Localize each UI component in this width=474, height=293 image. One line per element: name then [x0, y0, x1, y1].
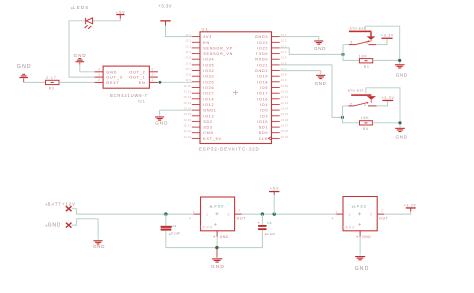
IC1 pin 3 OUT_3 stub [95, 76, 104, 78]
IC2 value LF50 [209, 206, 211, 208]
svg-text:J2.17: J2.17 [183, 123, 191, 127]
U1 CLK clock mark [268, 137, 271, 141]
U1 pin J2.11 IO27 [192, 92, 200, 94]
wire IC2 OUT rail [242, 213, 337, 215]
svg-text:IO2: IO2 [260, 114, 268, 118]
svg-text:J3.14: J3.14 [280, 107, 288, 111]
IC3 pin 3 GND stub [359, 231, 361, 237]
IC2 pin 3 GND stub [216, 231, 218, 237]
svg-text:LF33: LF33 [354, 204, 367, 209]
svg-text:GND: GND [211, 264, 225, 270]
U1 pin J3.8 IO19 [272, 75, 280, 77]
svg-text:C2: C2 [172, 224, 176, 228]
U1 pin J3.12 IO16 [272, 98, 280, 100]
switch S1 actuator [349, 31, 372, 33]
IC1 pin 1 EN stub [149, 81, 158, 83]
LED LED5 [85, 18, 93, 29]
svg-text:6: 6 [151, 68, 153, 72]
svg-text:2.17: 2.17 [46, 76, 57, 80]
svg-text:2: 2 [370, 213, 372, 217]
svg-text:J2.11: J2.11 [183, 90, 191, 94]
wire C2 drop [165, 214, 167, 226]
regulator IC3 LF33 body [343, 197, 377, 231]
svg-text:3: 3 [364, 102, 366, 106]
svg-text:J2.16: J2.16 [183, 118, 191, 122]
svg-text:SD2: SD2 [203, 120, 213, 124]
svg-text:OUT_1: OUT_1 [129, 76, 145, 80]
svg-text:J3.10: J3.10 [280, 84, 288, 88]
svg-text:J3.5: J3.5 [280, 56, 286, 60]
svg-text:IO0: IO0 [260, 109, 268, 113]
switch S2 actuator [351, 94, 371, 96]
U1 pin J3.4 TXD0 [272, 53, 280, 55]
junction button2 left [341, 116, 344, 119]
svg-text:IO17: IO17 [257, 92, 268, 96]
U1 pin J2.10 IO26 [192, 87, 200, 89]
U1 pin J3.15 IO2 [272, 115, 280, 117]
svg-text:OUT_2: OUT_2 [129, 70, 145, 74]
svg-text:IO22: IO22 [257, 46, 268, 50]
U1 pin J2.12 IO14 [192, 98, 200, 100]
resistor R1 value 18K [359, 59, 372, 63]
svg-text:IO15: IO15 [257, 120, 268, 124]
svg-text:SENSOR_VP: SENSOR_VP [203, 46, 233, 50]
svg-text:J2.2: J2.2 [185, 39, 191, 43]
svg-text:1: 1 [193, 210, 195, 214]
LED LED5 label [71, 7, 73, 9]
IC1 pin 2 OUT_1 stub [149, 76, 158, 78]
svg-text:3: 3 [98, 73, 100, 77]
svg-text:CMD: CMD [203, 131, 214, 135]
svg-text:GND: GND [355, 266, 370, 272]
svg-text:GND: GND [396, 134, 408, 139]
svg-text:EXT_5V: EXT_5V [203, 137, 222, 141]
svg-text:J3.8: J3.8 [280, 73, 286, 77]
pad X2 GND [66, 223, 72, 228]
wire ESP32 GND3 to ground [280, 37, 319, 40]
svg-text:J3.9: J3.9 [280, 78, 286, 82]
svg-text:J2.3: J2.3 [185, 44, 191, 48]
svg-text:OUT: OUT [237, 217, 246, 221]
svg-text:2: 2 [151, 73, 153, 77]
svg-text:IO34: IO34 [203, 58, 214, 62]
wire C3 bottom to gnd rail [261, 230, 263, 248]
U1 origin cross [233, 90, 238, 95]
U1 pin J2.7 IO32 [192, 70, 200, 72]
svg-text:1: 1 [206, 213, 208, 217]
svg-text:18K: 18K [361, 116, 370, 120]
svg-text:J3.19: J3.19 [280, 135, 288, 139]
op IC1 BCR421UW6-7 body [103, 66, 149, 88]
wire R6 to gnd rail [372, 122, 400, 124]
svg-text:J2.4: J2.4 [185, 50, 191, 54]
svg-text:IO32: IO32 [203, 69, 214, 73]
svg-text:J3.2: J3.2 [280, 39, 286, 43]
wire button2 top to gnd rail [366, 88, 400, 128]
svg-text:0.1uF: 0.1uF [171, 232, 180, 236]
svg-text:GND: GND [93, 244, 105, 249]
ground GND (under IC2) [216, 248, 218, 258]
svg-text:IC1: IC1 [138, 99, 146, 103]
wire ESP32 IO22 to button 1 net [280, 48, 343, 55]
ground GND (J3.1) [314, 40, 323, 41]
svg-text:J2.9: J2.9 [185, 78, 191, 82]
U1 pin J2.15 IO13 [192, 115, 200, 117]
svg-text:GND: GND [106, 70, 117, 74]
svg-text:LFXX: LFXX [343, 224, 355, 229]
U1 pin J3.13 IO4 [272, 104, 280, 106]
IC1 pin 6 OUT_2 stub [149, 71, 158, 73]
U1 pin J3.14 IO0 [272, 109, 280, 111]
svg-text:RXD0: RXD0 [255, 58, 268, 62]
U1 pin J2.17 SD3 [192, 126, 200, 128]
svg-text:GND: GND [362, 235, 371, 239]
svg-text:GND: GND [314, 46, 326, 51]
svg-text:+3,3V: +3,3V [404, 203, 417, 207]
svg-text:GND2: GND2 [255, 69, 268, 73]
switch S2 contacts and lever [348, 105, 353, 107]
svg-text:3: 3 [366, 40, 368, 44]
U1 pin J3.2 IO23 [272, 41, 280, 43]
wire GND pad to ground [72, 219, 98, 240]
junction C3 top [261, 212, 264, 215]
junction button2 right [398, 121, 401, 124]
IC3 value LF33 [352, 206, 354, 208]
U1 pin J2.9 IO25 [192, 81, 200, 83]
resistor R2 value 2.17 [46, 80, 60, 84]
svg-text:R2: R2 [49, 87, 55, 91]
wire GND to R2 [24, 81, 46, 83]
svg-text:2: 2 [381, 208, 383, 212]
U1 pin J3.9 IO18 [272, 81, 280, 83]
svg-text:J2.5: J2.5 [185, 56, 191, 60]
svg-text:IO16: IO16 [257, 97, 268, 101]
U1 pin J3.19 CLK [272, 137, 280, 139]
wire GND to IC1 GND pin [80, 65, 95, 72]
ground GND (button 2) [395, 128, 405, 129]
svg-text:J2.7: J2.7 [185, 67, 191, 71]
svg-text:IO13: IO13 [203, 114, 214, 118]
U1 pin J2.5 IO34 [192, 58, 200, 60]
svg-text:BATT+12V: BATT+12V [48, 201, 76, 206]
mcu U1 ESP32-DEVKITC-32D body [200, 32, 272, 144]
svg-text:1: 1 [151, 78, 153, 82]
svg-text:REXT: REXT [106, 81, 119, 85]
U1 pin J3.1 GND3 [272, 36, 280, 38]
supply +5V (top, LED anode) [116, 14, 124, 15]
wire IC3 OUT to +3,3V [384, 209, 411, 214]
svg-text:IO27: IO27 [203, 92, 214, 96]
svg-text:EN: EN [203, 41, 210, 45]
IC1 pin 5 REXT stub [95, 81, 104, 83]
wire +3,3V to ESP32 3V3 [166, 26, 192, 37]
wire IC1 EN to ESP32 IO25 [158, 81, 192, 83]
svg-text:J2.15: J2.15 [183, 112, 191, 116]
junction IC2 GND rail [215, 246, 218, 249]
svg-text:J2.19: J2.19 [183, 135, 191, 139]
wire LED cathode to IC1 OUT_3 [69, 21, 95, 77]
wire BATT+12V to IC2 IN [72, 209, 194, 214]
svg-text:3V3: 3V3 [203, 35, 212, 39]
svg-text:BTN-B3F: BTN-B3F [348, 89, 364, 93]
svg-text:5: 5 [98, 78, 100, 82]
wire button1 left vertical [343, 45, 359, 61]
svg-text:OUT_3: OUT_3 [106, 76, 122, 80]
svg-text:J3.11: J3.11 [280, 90, 288, 94]
junction button1 right [398, 59, 401, 62]
svg-text:+5V: +5V [270, 187, 280, 191]
svg-text:GND: GND [48, 223, 62, 229]
svg-text:SD1: SD1 [259, 126, 269, 130]
svg-text:IO25: IO25 [203, 80, 214, 84]
wire IC2 GND to rail [216, 237, 218, 248]
wire IC3 GND to ground [359, 237, 361, 256]
svg-text:J2.6: J2.6 [185, 61, 191, 65]
svg-text:J2.8: J2.8 [185, 73, 191, 77]
wire ESP32 GND2 to ground [280, 71, 321, 75]
svg-text:J2.13: J2.13 [183, 101, 191, 105]
U1 pin J2.2 EN [192, 41, 200, 43]
U1 pin J3.3 IO22 [272, 47, 280, 49]
svg-text:+3,3V: +3,3V [381, 33, 394, 37]
junction button1 left [341, 53, 344, 56]
svg-text:J3.13: J3.13 [280, 101, 288, 105]
svg-text:J3.4: J3.4 [280, 50, 286, 54]
switch S1 contacts and lever [349, 44, 355, 46]
U1 pin J2.16 SD2 [192, 120, 200, 122]
svg-text:ESP32-DEVKITC-32D: ESP32-DEVKITC-32D [199, 147, 260, 152]
svg-text:J3.16: J3.16 [280, 118, 288, 122]
ground GND (button 1) [395, 64, 405, 65]
svg-text:GND: GND [74, 53, 87, 58]
IC2 pin 2 OUT stub [235, 213, 242, 215]
IC1 pin 4 GND stub [95, 71, 104, 73]
ground GND (J3.7) [316, 75, 325, 76]
wire R2 to IC1 REXT [59, 81, 95, 83]
svg-text:+3,3V: +3,3V [382, 96, 395, 100]
svg-text:GND: GND [17, 64, 32, 70]
svg-text:J2.10: J2.10 [183, 84, 191, 88]
ground GND (left of ESP32) [155, 116, 164, 117]
capacitor C2 value 0.1uF [161, 226, 172, 228]
U1 pin J2.19 EXT_5V [192, 137, 200, 139]
regulator IC2 LF50 body [201, 197, 235, 231]
svg-text:IO23: IO23 [257, 41, 268, 45]
svg-text:IO12: IO12 [203, 103, 214, 107]
U1 pin J3.10 IO5 [272, 87, 280, 89]
pad GND label [45, 225, 47, 227]
U1 pin J3.6 IO21 [272, 64, 280, 66]
wire ESP32 IO21 to button 2 net [280, 65, 342, 118]
svg-text:CLK: CLK [259, 137, 269, 141]
svg-text:J2.18: J2.18 [183, 129, 191, 133]
wire +5V to LED [93, 19, 120, 21]
wire button2 left vertical [343, 106, 360, 123]
ground GND (power input) [94, 240, 103, 241]
U1 pin J2.14 GND1 [192, 109, 200, 111]
svg-text:2: 2 [238, 208, 240, 212]
svg-text:OUT: OUT [379, 217, 388, 221]
U1 pin J2.8 IO33 [192, 75, 200, 77]
svg-text:IO21: IO21 [257, 63, 268, 67]
svg-text:EN: EN [139, 81, 146, 85]
pad BATT+12V label [45, 204, 47, 206]
wire R1 to gnd rail [373, 59, 400, 61]
wire switch1 right pin to +3,3V [376, 39, 387, 45]
svg-text:SENSOR_VN: SENSOR_VN [203, 52, 233, 56]
svg-text:GND: GND [155, 121, 168, 126]
svg-text:+5V: +5V [116, 9, 126, 14]
pad X1 BATT+12V [66, 206, 72, 211]
wire ESP32 GND1 to ground [160, 110, 192, 116]
svg-text:TXD0: TXD0 [256, 52, 269, 56]
svg-text:1: 1 [335, 210, 337, 214]
svg-text:C3: C3 [267, 221, 271, 225]
wire +5V riser [273, 195, 275, 214]
svg-text:1: 1 [348, 213, 350, 217]
svg-text:IO18: IO18 [257, 80, 268, 84]
svg-text:LED5: LED5 [73, 5, 89, 10]
U1 pin J3.11 IO17 [272, 92, 280, 94]
wire C2 bottom to gnd rail [166, 231, 263, 248]
IC3 pin 1 IN stub [336, 213, 343, 215]
U1 pin J2.6 IO35 [192, 64, 200, 66]
svg-text:LF50: LF50 [211, 204, 224, 209]
svg-text:IO5: IO5 [260, 86, 268, 90]
U1 pin J2.4 SENSOR_VN [192, 53, 200, 55]
svg-text:+3,3V: +3,3V [158, 4, 172, 9]
wire button1 top to gnd rail [365, 26, 400, 64]
svg-text:U1: U1 [202, 26, 210, 31]
svg-text:IO14: IO14 [203, 97, 214, 101]
junction C2 top [164, 212, 167, 215]
svg-text:GND: GND [220, 235, 229, 239]
svg-text:IO19: IO19 [257, 75, 268, 79]
ground GND (under IC3) [355, 256, 365, 257]
svg-text:2: 2 [227, 213, 229, 217]
svg-text:+: + [258, 221, 260, 225]
svg-text:GND1: GND1 [203, 109, 216, 113]
svg-text:J3.18: J3.18 [280, 129, 288, 133]
svg-text:BCR421UW6-7: BCR421UW6-7 [110, 93, 148, 98]
wire switch2 left pin [343, 105, 349, 107]
IC3 pin 2 OUT stub [377, 213, 384, 215]
svg-text:R6: R6 [363, 127, 369, 131]
U1 pin J3.18 SD0 [272, 132, 280, 134]
svg-text:SD0: SD0 [259, 131, 269, 135]
svg-text:2: 2 [350, 40, 352, 44]
svg-text:J3.15: J3.15 [280, 112, 288, 116]
svg-text:J2.12: J2.12 [183, 95, 191, 99]
svg-text:BTN-B3F: BTN-B3F [350, 26, 366, 30]
svg-text:LFXX: LFXX [200, 224, 212, 229]
U1 pin J3.5 RXD0 [272, 58, 280, 60]
svg-text:2.2uF: 2.2uF [267, 232, 276, 236]
svg-text:4: 4 [98, 68, 100, 72]
U1 pin J2.18 CMD [192, 132, 200, 134]
junction +5V riser [273, 212, 276, 215]
svg-text:IO26: IO26 [203, 86, 214, 90]
svg-text:IO35: IO35 [203, 63, 214, 67]
svg-text:SD3: SD3 [203, 126, 213, 130]
svg-text:IO33: IO33 [203, 75, 214, 79]
svg-text:J3.17: J3.17 [280, 123, 288, 127]
junction EN net [159, 81, 162, 84]
IC2 pin 1 IN stub [194, 213, 201, 215]
svg-text:J2.1: J2.1 [185, 33, 191, 37]
wire C3 drop [261, 214, 263, 225]
U1 pin J2.13 IO12 [192, 104, 200, 106]
wire switch2 right pin to +3,3V [377, 101, 388, 106]
svg-text:GND: GND [315, 81, 327, 86]
U1 pin J3.17 SD1 [272, 126, 280, 128]
wire switch1 left pin [343, 44, 349, 46]
U1 pin J3.16 IO15 [272, 120, 280, 122]
U1 pin J2.1 3V3 [192, 36, 200, 38]
U1 pin J3.7 GND2 [272, 70, 280, 72]
U1 pin J2.3 SENSOR_VP [192, 47, 200, 49]
svg-text:J3.12: J3.12 [280, 95, 288, 99]
svg-text:18K: 18K [359, 55, 368, 59]
svg-text:GND3: GND3 [255, 35, 268, 39]
svg-text:R1: R1 [364, 65, 370, 69]
resistor R6 value 18K [360, 121, 373, 125]
svg-text:IO4: IO4 [260, 103, 268, 107]
svg-text:2: 2 [350, 102, 352, 106]
svg-text:GND: GND [396, 72, 408, 77]
